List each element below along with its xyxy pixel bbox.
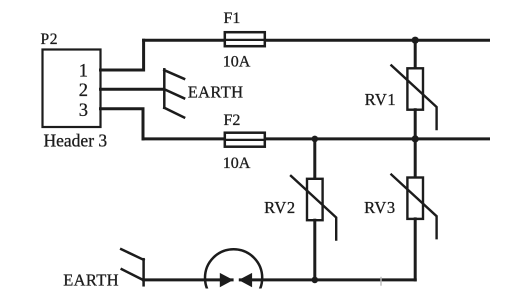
svg-text:RV1: RV1 (365, 90, 397, 109)
svg-text:EARTH: EARTH (188, 83, 244, 102)
surge arrester tube (205, 249, 262, 306)
ground earth symbol upper (164, 69, 184, 117)
junction L2 RV2 (312, 136, 319, 143)
connector P2 box (43, 50, 101, 128)
ground earth symbol lower (121, 249, 143, 285)
fuse F2 (225, 133, 265, 147)
svg-text:10A: 10A (223, 155, 251, 172)
svg-text:1: 1 (79, 61, 88, 81)
junction L2 RV1 RV3 (412, 135, 419, 142)
varistor RV1 (391, 40, 436, 139)
fuse F1 (225, 32, 265, 46)
svg-text:RV3: RV3 (364, 198, 396, 217)
wire bottom earth net (144, 278, 416, 281)
varistor RV3 (391, 139, 436, 280)
wire top net L1 (144, 39, 489, 42)
svg-text:F2: F2 (224, 112, 241, 129)
junction top L1 RV1 (412, 37, 419, 44)
svg-text:F1: F1 (224, 10, 241, 27)
svg-text:10A: 10A (223, 54, 251, 71)
wire pin1 to top net (101, 40, 144, 70)
svg-text:EARTH: EARTH (63, 271, 119, 290)
wire net L2 (143, 137, 489, 140)
svg-text:Header 3: Header 3 (44, 130, 108, 150)
svg-text:P2: P2 (41, 31, 59, 48)
varistor RV2 (291, 139, 336, 280)
svg-text:2: 2 (79, 81, 88, 101)
svg-text:RV2: RV2 (264, 198, 296, 217)
tick mark bottom net (380, 278, 382, 286)
wire pin2 to earth (101, 88, 164, 91)
junction bottom RV2 (312, 277, 319, 284)
svg-text:3: 3 (79, 101, 88, 121)
wire pin3 to L2 (101, 109, 144, 139)
